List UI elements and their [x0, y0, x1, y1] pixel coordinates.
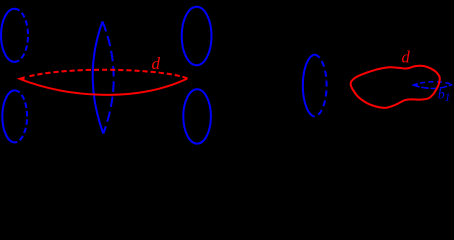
boundary circle top-left (dashed right half): [15, 9, 29, 62]
arrowhead on curve b1: [412, 83, 418, 88]
boundary circle bottom-left (solid left half): [2, 90, 14, 142]
boundary circle right figure (solid left half): [303, 55, 315, 117]
central lens curve, solid left arc: [93, 22, 104, 134]
arrowhead on curve d (left figure): [17, 76, 25, 81]
curve d (left figure) dashed top arc: [30, 70, 188, 79]
boundary circle right figure (dashed right half): [315, 55, 327, 117]
curve b1: small flat ellipse dashed top arc: [420, 82, 452, 85]
svg-text:d: d: [152, 54, 161, 73]
central lens curve, dashed right arc: [103, 22, 114, 134]
svg-text:1: 1: [445, 92, 451, 104]
boundary circle top-left (solid left half): [1, 9, 15, 62]
curve b1: small flat ellipse bottom arc: [412, 84, 452, 88]
boundary circle top-right (solid): [182, 7, 212, 66]
boundary circle bottom-left (dashed right half): [15, 90, 27, 142]
curve d (left figure) solid bottom arc: [20, 79, 188, 95]
boundary circle bottom-right (solid): [183, 89, 211, 143]
svg-text:d: d: [402, 47, 411, 66]
curve d (right figure): red blob: [351, 66, 440, 108]
